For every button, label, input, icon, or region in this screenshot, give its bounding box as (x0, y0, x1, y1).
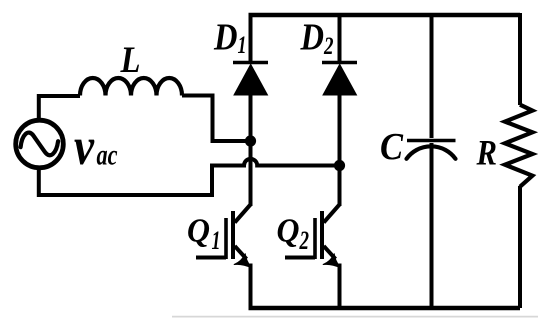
svg-text:D: D (213, 17, 237, 59)
capacitor C upper wire (430, 13, 434, 138)
svg-text:2: 2 (299, 226, 309, 255)
D2 cathode wire (338, 13, 342, 62)
Q1 body bar (231, 211, 235, 259)
bottom rail wire (249, 306, 521, 310)
D1 cathode bar (233, 61, 268, 65)
ac source sine symbol (21, 133, 59, 156)
top rail wire (249, 13, 521, 17)
wire vac bottom to node B with hop over D1/Q1 branch (39, 159, 340, 195)
svg-text:1: 1 (212, 226, 221, 255)
inductor L (80, 78, 182, 96)
Q1 emitter wire to bottom rail (249, 264, 253, 309)
wire from vac top to inductor L (39, 96, 80, 121)
svg-text:v: v (74, 118, 94, 176)
resistor R zigzag (505, 105, 533, 187)
svg-text:Q: Q (187, 213, 210, 250)
Q2 gate bar (313, 218, 317, 259)
transistor Q2 (IGBT) (285, 205, 340, 309)
Q1 collector lead (235, 205, 251, 223)
resistor R bottom wire (518, 186, 522, 308)
svg-text:1: 1 (238, 32, 247, 59)
D1 triangle (234, 64, 268, 95)
D2 triangle (323, 64, 357, 95)
svg-text:ac: ac (97, 139, 118, 172)
capacitor C lower wire (430, 143, 434, 308)
D2 cathode bar (322, 61, 357, 65)
svg-text:2: 2 (323, 33, 333, 60)
Q2 collector lead (324, 205, 340, 223)
svg-text:D: D (300, 17, 324, 59)
Q1 gate bar (224, 218, 228, 259)
svg-text:C: C (380, 126, 404, 168)
Q1 gate lead (196, 256, 226, 260)
Q2 emitter wire to bottom rail (338, 264, 342, 309)
node B junction dot (334, 160, 345, 171)
D1 anode wire down to Q1 (249, 94, 253, 206)
Q1 emitter arrowhead (234, 254, 251, 268)
diode D2 (322, 13, 357, 206)
resistor R top wire (518, 13, 522, 105)
diode D1 (233, 13, 268, 206)
node A junction dot (245, 135, 256, 146)
Q2 gate lead (285, 256, 315, 260)
transistor Q1 (IGBT) (196, 205, 251, 309)
wire inductor to node A (182, 96, 251, 142)
Q2 emitter arrowhead (323, 254, 340, 268)
Q2 emitter lead (324, 246, 336, 259)
D1 cathode wire (249, 13, 253, 62)
Q2 body bar (320, 211, 324, 259)
svg-text:L: L (120, 40, 141, 81)
capacitor C flat plate (407, 139, 456, 143)
svg-text:R: R (476, 133, 497, 173)
ac source Vac circle (16, 120, 64, 168)
Q1 emitter lead (235, 246, 247, 259)
svg-text:Q: Q (277, 213, 300, 250)
capacitor C curved plate (407, 146, 456, 158)
faint scan line artifact (172, 316, 538, 318)
D2 anode wire down to Q2 (338, 94, 342, 206)
